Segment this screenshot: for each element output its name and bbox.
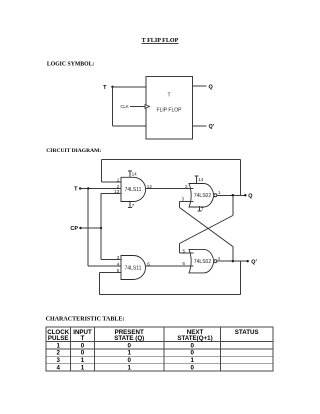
svg-text:CLK: CLK: [120, 104, 128, 109]
wire T down leg: [112, 87, 114, 126]
node dot T input: [111, 86, 113, 88]
svg-text:0: 0: [190, 365, 194, 372]
svg-text:T: T: [81, 335, 85, 342]
U2 pin 7 stub: [198, 206, 204, 212]
wire T to U1 pin 2: [80, 188, 121, 190]
wire T vertical branch: [87, 189, 89, 267]
table data rows: [56, 342, 194, 371]
node dot Q terminal: [244, 194, 246, 196]
node dot Q' terminal: [247, 260, 249, 262]
wire cross coupling Q' to U2 pin 3: [180, 201, 233, 261]
wire T bottom into box: [113, 125, 146, 127]
wire CP to U1 pin 13: [101, 193, 121, 195]
svg-text:2: 2: [56, 350, 60, 357]
svg-text:STATUS: STATUS: [235, 329, 259, 336]
svg-text:T: T: [167, 92, 170, 98]
svg-text:74LS11: 74LS11: [125, 187, 142, 193]
svg-text:3: 3: [56, 357, 60, 364]
clock arrowhead: [145, 105, 150, 109]
svg-text:6: 6: [182, 261, 185, 266]
svg-text:0: 0: [81, 342, 85, 349]
svg-text:0: 0: [81, 350, 85, 357]
wire top feedback horizontal: [101, 159, 240, 161]
wire U3 output to U4 pin 6: [146, 265, 194, 267]
wire bottom feedback right vertical: [239, 261, 241, 294]
wire U1 output to U2 pin 2: [146, 188, 194, 190]
U3 pin labels: [117, 255, 151, 273]
svg-text:74LS11: 74LS11: [125, 266, 142, 272]
node dot T branch: [87, 187, 89, 189]
svg-text:7: 7: [132, 203, 135, 208]
svg-text:74LS02: 74LS02: [194, 259, 211, 265]
wire top feedback right vertical: [239, 160, 241, 196]
wire U1 pin 1 feedback input: [101, 160, 121, 183]
wire U4 output to Q': [217, 260, 248, 262]
wire CP to U3 pin 3: [101, 259, 121, 261]
svg-text:0: 0: [127, 342, 131, 349]
svg-text:CIRCUIT DIAGRAM:: CIRCUIT DIAGRAM:: [46, 148, 101, 154]
svg-text:14: 14: [198, 177, 204, 182]
svg-text:4: 4: [218, 256, 221, 261]
svg-text:1: 1: [81, 357, 85, 364]
and-gate U3 74LS11 bottom: [121, 256, 146, 280]
logic symbol box: [146, 77, 193, 140]
and-gate U1 74LS11 top: [121, 177, 146, 201]
wire bottom feedback to U3 pin 5: [100, 272, 122, 294]
U1 pin 7 stub: [128, 202, 135, 209]
svg-text:LOGIC SYMBOL:: LOGIC SYMBOL:: [47, 61, 95, 67]
node dot T terminal: [79, 187, 81, 189]
wire CP horizontal: [81, 227, 102, 229]
wire T to box top input: [113, 86, 146, 88]
svg-text:1: 1: [56, 342, 60, 349]
nor-gate U4 74LS02 bottom: [189, 249, 217, 273]
characteristic table grid: [46, 327, 273, 371]
svg-text:Q': Q': [251, 260, 257, 266]
svg-text:1: 1: [190, 357, 194, 364]
svg-text:STATE(Q+1): STATE(Q+1): [177, 335, 212, 342]
wire U2 output to Q: [217, 194, 246, 196]
node dot Q' cross junction: [232, 260, 234, 262]
svg-text:4: 4: [56, 365, 60, 372]
svg-text:1: 1: [218, 190, 221, 195]
U2 pin labels: [181, 184, 221, 202]
U4 pin labels: [182, 248, 220, 266]
svg-text:Q: Q: [248, 194, 253, 200]
svg-text:1: 1: [127, 350, 131, 357]
svg-text:STATE (Q): STATE (Q): [114, 335, 144, 342]
U1 pin labels: [114, 178, 152, 194]
U1 pin 14 stub: [128, 171, 137, 178]
wire Q' output (logic symbol): [193, 125, 207, 127]
nor-gate U2 74LS02 top: [189, 184, 217, 208]
wire Q output (logic symbol): [193, 85, 207, 87]
svg-text:Q': Q': [209, 124, 215, 130]
node dot CP branch: [100, 227, 102, 229]
wire bottom feedback horizontal: [100, 294, 241, 296]
wire CLK: [130, 106, 145, 108]
svg-text:1: 1: [81, 365, 85, 372]
wire cross coupling Q to U4 pin 5: [180, 195, 233, 253]
svg-text:0: 0: [127, 357, 131, 364]
svg-text:Q: Q: [209, 84, 214, 90]
wire T to U3 pin 4: [88, 265, 121, 267]
svg-text:CHARACTERISTIC TABLE:: CHARACTERISTIC TABLE:: [46, 317, 125, 323]
svg-text:1: 1: [127, 365, 131, 372]
svg-text:74LS02: 74LS02: [194, 193, 211, 199]
U2 pin 14 stub: [195, 176, 204, 184]
node dot Q cross junction: [232, 194, 234, 196]
svg-text:PULSE: PULSE: [48, 335, 69, 342]
svg-text:0: 0: [190, 342, 194, 349]
wire CP vertical: [100, 194, 102, 260]
svg-text:CP: CP: [70, 226, 78, 232]
svg-text:0: 0: [190, 350, 194, 357]
svg-text:14: 14: [132, 172, 138, 177]
svg-text:5: 5: [182, 248, 185, 253]
svg-text:7: 7: [201, 206, 204, 211]
table header row: [47, 329, 258, 342]
svg-text:FLIP FLOP: FLIP FLOP: [157, 108, 183, 114]
node dot CP terminal: [79, 227, 81, 229]
title T FLIP FLOP: [142, 38, 179, 44]
